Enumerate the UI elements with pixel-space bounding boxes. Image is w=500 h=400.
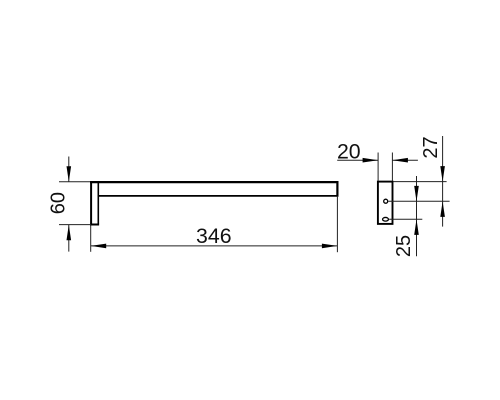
svg-text:346: 346 — [196, 224, 232, 248]
svg-text:25: 25 — [393, 235, 415, 257]
svg-text:27: 27 — [420, 136, 442, 158]
svg-text:60: 60 — [48, 192, 70, 214]
svg-text:20: 20 — [337, 140, 361, 164]
